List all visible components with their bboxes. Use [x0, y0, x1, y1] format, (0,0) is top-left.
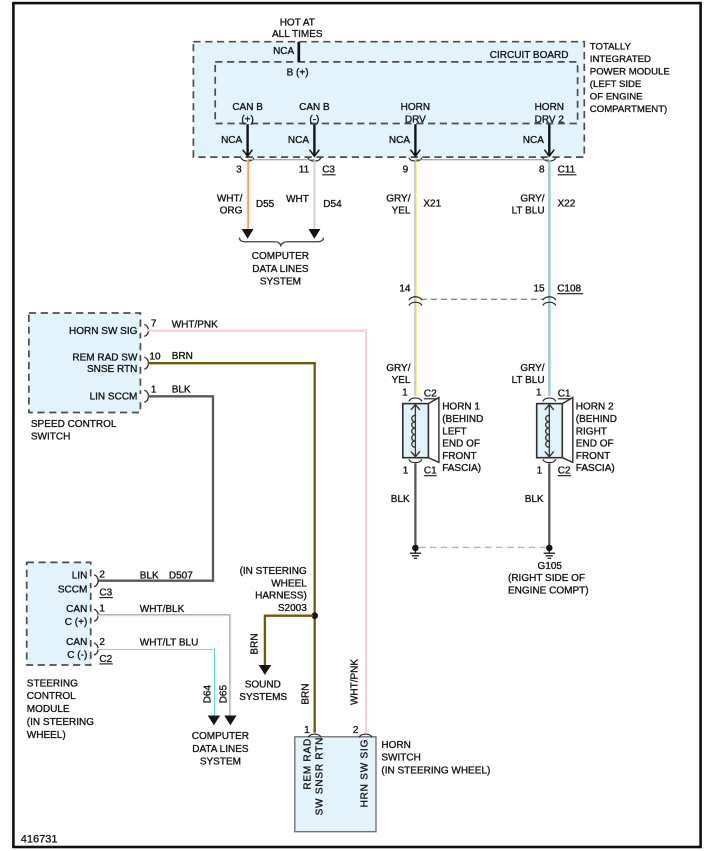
- svg-text:DATA LINES: DATA LINES: [192, 744, 249, 755]
- svg-text:D55: D55: [256, 199, 275, 210]
- svg-text:GRY/: GRY/: [386, 363, 410, 374]
- pin number 9: [403, 165, 409, 176]
- wire WHT/BLK D64-can: [98, 615, 237, 725]
- svg-text:HORN: HORN: [381, 740, 410, 751]
- svg-text:FRONT: FRONT: [576, 451, 610, 462]
- svg-text:C (+): C (+): [65, 617, 88, 628]
- module SCM steering control module box: [27, 562, 91, 665]
- svg-text:LT BLU: LT BLU: [512, 375, 545, 386]
- pin 7 connector arc: [139, 324, 148, 336]
- svg-text:NCA: NCA: [523, 135, 544, 146]
- svg-text:SYSTEM: SYSTEM: [260, 277, 301, 288]
- TIPM NCA arrow at x=247.6: [221, 124, 252, 156]
- svg-text:HORN: HORN: [401, 102, 430, 113]
- svg-text:D54: D54: [323, 199, 342, 210]
- svg-text:(BEHIND: (BEHIND: [442, 414, 483, 425]
- wire BRN rem rad sw: [148, 363, 315, 733]
- pin 1 connector arc switch: [139, 390, 148, 402]
- label WHT/PNK rotated: [349, 659, 360, 705]
- svg-text:NCA: NCA: [221, 135, 242, 146]
- svg-text:WHT/: WHT/: [217, 193, 243, 204]
- svg-text:BRN: BRN: [249, 633, 260, 654]
- TIPM internal pin label HORN DRV 2: [535, 102, 565, 126]
- svg-text:ALL TIMES: ALL TIMES: [272, 29, 323, 40]
- svg-text:STEERING: STEERING: [27, 678, 78, 689]
- svg-text:YEL: YEL: [392, 205, 411, 216]
- svg-text:CAN B: CAN B: [299, 102, 330, 113]
- label WHT/LT BLU: [140, 638, 199, 649]
- svg-text:D64: D64: [202, 684, 213, 703]
- pin 14 label: [399, 284, 411, 295]
- label COMPUTER DATA LINES SYSTEM top: [252, 251, 309, 287]
- wire WHT/LT BLU: [98, 648, 220, 725]
- label BLK switch: [172, 385, 191, 396]
- svg-text:WHEEL): WHEEL): [27, 730, 66, 741]
- pin number 1 module: [99, 604, 105, 615]
- TIPM NCA arrow at x=314.4: [288, 124, 319, 156]
- connector bump below TIPM x=549.3: [543, 158, 556, 161]
- label WHT: [286, 194, 309, 205]
- label STEERING CONTROL MODULE: [27, 678, 94, 741]
- svg-text:15: 15: [533, 284, 545, 295]
- svg-text:NCA: NCA: [273, 46, 294, 57]
- svg-text:END OF: END OF: [442, 439, 480, 450]
- pin number 2 and C3 module: [99, 570, 112, 599]
- svg-text:COMPARTMENT): COMPARTMENT): [590, 104, 667, 115]
- svg-text:HORN 2: HORN 2: [576, 402, 614, 413]
- svg-text:WHT/PNK: WHT/PNK: [172, 320, 218, 331]
- label GRY/LT BLU upper: [512, 193, 545, 216]
- horn HORN2 symbol: [537, 398, 573, 463]
- connector bump below TIPM x=314.4: [308, 158, 321, 161]
- label X22: [558, 199, 576, 210]
- wire GRY/YEL X21: [415, 161, 416, 396]
- label B (+): [287, 68, 309, 79]
- svg-text:HRN SW SIG: HRN SW SIG: [360, 739, 371, 808]
- label CAN C (+): [65, 604, 88, 628]
- brace computer data lines: [239, 238, 323, 246]
- switch horn switch box: [295, 737, 376, 832]
- svg-text:FRONT: FRONT: [442, 451, 476, 462]
- svg-text:BLK: BLK: [525, 494, 544, 505]
- ground dashed link: [419, 546, 546, 548]
- pin 2b connector arc module C2: [89, 643, 98, 655]
- svg-text:BLK: BLK: [172, 385, 191, 396]
- connector C108 arcs left: [409, 297, 422, 306]
- pin 10 connector arc: [139, 357, 148, 369]
- svg-text:OF ENGINE: OF ENGINE: [590, 92, 643, 103]
- horn HORN2 pin 1 C1 labels: [536, 388, 571, 400]
- label TOTALLY INTEGRATED POWER MODULE: [590, 42, 670, 116]
- svg-text:REM RAD SW: REM RAD SW: [72, 352, 138, 363]
- switch S1 speed control switch box: [29, 313, 140, 413]
- pin number 10: [149, 352, 161, 363]
- label HORN SWITCH: [381, 740, 490, 776]
- svg-text:1: 1: [536, 388, 542, 399]
- svg-text:2: 2: [99, 637, 105, 648]
- pin number 3: [236, 165, 242, 176]
- pin number 8 and connector C11: [539, 165, 576, 176]
- connector bump horn switch pin 1: [308, 734, 321, 737]
- module U1 TIPM box: [193, 42, 584, 157]
- svg-text:X21: X21: [423, 199, 441, 210]
- svg-text:INTEGRATED: INTEGRATED: [590, 54, 651, 65]
- svg-text:8: 8: [539, 165, 545, 176]
- label IN STEERING WHEEL HARNESS S2003: [240, 566, 308, 614]
- svg-text:C (-): C (-): [67, 650, 87, 661]
- svg-text:NCA: NCA: [389, 135, 410, 146]
- svg-text:HARNESS): HARNESS): [255, 591, 307, 602]
- svg-text:11: 11: [299, 165, 310, 176]
- svg-text:C3: C3: [322, 165, 335, 176]
- svg-text:NCA: NCA: [288, 135, 309, 146]
- pin number 2 horn switch: [353, 725, 359, 736]
- label BLK horn1: [391, 494, 410, 505]
- svg-text:2: 2: [353, 725, 359, 736]
- svg-text:SWITCH: SWITCH: [31, 432, 70, 443]
- horn HORN1 pin 1 C2 labels: [402, 388, 437, 400]
- wire BRN branch to sound systems: [259, 616, 313, 675]
- pin number 1 switch: [151, 385, 157, 396]
- svg-text:REM RAD: REM RAD: [302, 738, 313, 790]
- horn HORN1 symbol: [403, 398, 439, 463]
- label 416731: [21, 833, 58, 845]
- svg-text:C2: C2: [424, 389, 437, 400]
- svg-text:X22: X22: [558, 199, 576, 210]
- label GRY/YEL upper: [386, 193, 411, 216]
- label BRN rotated branch: [249, 633, 260, 654]
- svg-text:HOT AT: HOT AT: [280, 18, 315, 29]
- svg-text:(IN STEERING: (IN STEERING: [240, 566, 307, 577]
- svg-text:FASCIA): FASCIA): [576, 463, 615, 474]
- label LIN SCCM switch: [90, 392, 138, 403]
- svg-text:7: 7: [151, 318, 157, 329]
- label D64: [202, 684, 213, 703]
- label GRY/YEL lower: [386, 363, 411, 386]
- svg-text:G105: G105: [538, 561, 563, 572]
- pin number 11 and connector C3: [299, 165, 336, 176]
- wire WHT D54: [308, 161, 320, 239]
- svg-text:GRY/: GRY/: [386, 193, 410, 204]
- label CAN C (-): [66, 637, 87, 661]
- svg-text:C11: C11: [558, 165, 576, 176]
- svg-text:SOUND: SOUND: [245, 680, 281, 691]
- wire B(+) feed: [297, 42, 300, 62]
- svg-text:GRY/: GRY/: [520, 363, 544, 374]
- label HRN SW SIG rotated: [360, 739, 371, 808]
- svg-text:TOTALLY: TOTALLY: [590, 42, 632, 53]
- svg-text:9: 9: [403, 165, 409, 176]
- svg-text:ORG: ORG: [220, 205, 243, 216]
- label D65: [219, 684, 230, 703]
- svg-text:SYSTEMS: SYSTEMS: [239, 692, 287, 703]
- svg-text:D507: D507: [169, 571, 193, 582]
- connector line C11 pins 9-8: [415, 159, 549, 161]
- svg-text:YEL: YEL: [392, 375, 411, 386]
- svg-text:WHT: WHT: [286, 194, 309, 205]
- svg-text:B (+): B (+): [287, 68, 309, 79]
- label CIRCUIT BOARD: [490, 50, 569, 61]
- svg-text:COMPUTER: COMPUTER: [192, 731, 249, 742]
- svg-text:C2: C2: [558, 466, 571, 477]
- TIPM NCA arrow at x=549.3: [523, 124, 554, 156]
- svg-text:CAN: CAN: [66, 637, 87, 648]
- label NCA B+: [273, 46, 294, 57]
- svg-text:DRV: DRV: [405, 114, 426, 125]
- wire BLK lin sccm: [98, 396, 213, 580]
- label LIN SCCM module: [58, 571, 87, 596]
- svg-text:CIRCUIT BOARD: CIRCUIT BOARD: [490, 50, 569, 61]
- wire BLK horn1 to ground: [414, 464, 416, 545]
- label WHT/ORG: [217, 193, 243, 216]
- splice S2003 junction dot: [311, 612, 318, 619]
- svg-text:SW SNSR RTN: SW SNSR RTN: [315, 737, 326, 816]
- ground G105 right: [544, 545, 555, 559]
- svg-text:(IN STEERING: (IN STEERING: [27, 717, 94, 728]
- connector bump below TIPM x=415.4: [409, 158, 422, 161]
- svg-text:SNSE RTN: SNSE RTN: [87, 364, 137, 375]
- svg-text:END OF: END OF: [576, 439, 614, 450]
- TIPM internal pin label CAN B (-): [299, 102, 330, 126]
- pin number 7: [151, 318, 157, 329]
- wire BLK horn2 to ground: [548, 464, 550, 545]
- svg-text:1: 1: [402, 388, 408, 399]
- svg-text:FASCIA): FASCIA): [442, 463, 481, 474]
- label HOT AT ALL TIMES: [272, 18, 323, 40]
- label SOUND SYSTEMS: [239, 680, 287, 703]
- connector C108 arcs right: [543, 297, 556, 306]
- svg-text:1: 1: [403, 466, 409, 477]
- svg-text:1: 1: [537, 466, 543, 477]
- label GRY/LT BLU lower: [512, 363, 545, 386]
- svg-text:BRN: BRN: [301, 684, 312, 705]
- label HORN 1 description: [442, 402, 483, 475]
- svg-text:C3: C3: [99, 587, 112, 598]
- svg-text:LIN: LIN: [72, 571, 88, 582]
- svg-text:1: 1: [151, 385, 157, 396]
- svg-text:BRN: BRN: [172, 351, 193, 362]
- pin number 1 horn switch: [304, 725, 310, 736]
- svg-text:10: 10: [149, 352, 161, 363]
- svg-text:S2003: S2003: [278, 603, 307, 614]
- svg-text:SWITCH: SWITCH: [381, 753, 420, 764]
- svg-text:CAN: CAN: [66, 604, 87, 615]
- pin 15 label and connector C108: [533, 284, 583, 295]
- inner circuit board box: [215, 62, 577, 124]
- svg-text:WHT/BLK: WHT/BLK: [140, 604, 185, 615]
- svg-text:D65: D65: [219, 684, 230, 703]
- svg-text:HORN 1: HORN 1: [442, 402, 480, 413]
- svg-text:3: 3: [236, 165, 242, 176]
- connector line C3 pins 3-11: [248, 159, 315, 161]
- horn HORN2 bottom pin 1 C2 labels: [537, 466, 572, 477]
- label BRN rotated main: [301, 684, 312, 705]
- svg-text:BLK: BLK: [391, 494, 410, 505]
- svg-text:2: 2: [99, 570, 105, 581]
- ground G105 left: [410, 545, 421, 559]
- label REM RAD SW SNSR RTN rotated: [302, 737, 325, 816]
- label REM RAD SW SNSE RTN: [72, 352, 138, 375]
- svg-text:WHT/PNK: WHT/PNK: [349, 659, 360, 705]
- label SPEED CONTROL SWITCH: [31, 419, 117, 443]
- label BRN: [172, 351, 193, 362]
- pin number 2 and C2 module: [99, 637, 112, 665]
- svg-text:DATA LINES: DATA LINES: [252, 264, 309, 275]
- label D55: [256, 199, 275, 210]
- svg-text:GRY/: GRY/: [520, 193, 544, 204]
- svg-text:MODULE: MODULE: [27, 704, 70, 715]
- svg-text:(LEFT SIDE: (LEFT SIDE: [590, 79, 642, 90]
- svg-text:(-): (-): [309, 114, 319, 125]
- svg-text:416731: 416731: [21, 833, 58, 845]
- svg-text:C1: C1: [424, 466, 437, 477]
- label COMPUTER DATA LINES SYSTEM bottom: [192, 731, 249, 768]
- svg-text:WHEEL: WHEEL: [271, 579, 307, 590]
- svg-text:1: 1: [304, 725, 310, 736]
- label WHT/BLK: [140, 604, 185, 615]
- svg-text:(IN STEERING WHEEL): (IN STEERING WHEEL): [381, 765, 490, 776]
- label WHT/PNK: [172, 320, 218, 331]
- wire WHT/PNK horn sw sig: [148, 330, 366, 733]
- label BLK D507: [140, 571, 193, 582]
- svg-text:ENGINE COMPT): ENGINE COMPT): [508, 585, 589, 596]
- label BLK horn2: [525, 494, 544, 505]
- label G105: [508, 561, 589, 597]
- svg-text:RIGHT: RIGHT: [576, 426, 607, 437]
- svg-text:COMPUTER: COMPUTER: [252, 251, 309, 262]
- horn HORN1 bottom pin 1 C1 labels: [403, 466, 437, 477]
- pin 2 connector arc module C3: [89, 575, 98, 587]
- svg-text:C108: C108: [557, 284, 581, 295]
- label HORN SW SIG: [69, 326, 138, 337]
- svg-text:DRV 2: DRV 2: [535, 114, 565, 125]
- svg-text:C2: C2: [99, 654, 112, 665]
- svg-text:SPEED CONTROL: SPEED CONTROL: [31, 419, 117, 430]
- svg-text:1: 1: [99, 604, 105, 615]
- svg-text:SYSTEM: SYSTEM: [200, 757, 241, 768]
- label D54: [323, 199, 342, 210]
- TIPM internal pin label CAN B (+): [232, 102, 263, 126]
- svg-text:(BEHIND: (BEHIND: [576, 414, 617, 425]
- svg-text:C1: C1: [558, 389, 571, 400]
- svg-text:CAN B: CAN B: [232, 102, 263, 113]
- TIPM NCA arrow at x=415.4: [389, 124, 420, 156]
- TIPM internal pin label HORN DRV: [401, 102, 430, 126]
- svg-text:LT BLU: LT BLU: [512, 205, 545, 216]
- svg-text:HORN SW SIG: HORN SW SIG: [69, 326, 138, 337]
- svg-text:LEFT: LEFT: [442, 426, 466, 437]
- connector bump horn switch pin 2: [359, 734, 372, 737]
- svg-text:WHT/LT BLU: WHT/LT BLU: [140, 638, 199, 649]
- svg-text:14: 14: [399, 284, 411, 295]
- svg-text:SCCM: SCCM: [58, 584, 87, 595]
- svg-text:(+): (+): [241, 114, 254, 125]
- svg-text:BLK: BLK: [140, 571, 159, 582]
- label HORN 2 description: [576, 402, 617, 475]
- svg-text:HORN: HORN: [535, 102, 564, 113]
- wire WHT/ORG D55: [242, 161, 254, 239]
- connector bump below TIPM x=247.6: [241, 158, 254, 161]
- svg-text:POWER MODULE: POWER MODULE: [590, 67, 670, 78]
- svg-text:(RIGHT SIDE OF: (RIGHT SIDE OF: [508, 573, 585, 584]
- label X21: [423, 199, 441, 210]
- svg-text:LIN SCCM: LIN SCCM: [90, 392, 138, 403]
- pin 1 connector arc module: [89, 609, 98, 621]
- connector C108 dashed link: [421, 298, 544, 300]
- svg-text:CONTROL: CONTROL: [27, 691, 76, 702]
- wire GRY/LT BLU X22: [549, 161, 550, 396]
